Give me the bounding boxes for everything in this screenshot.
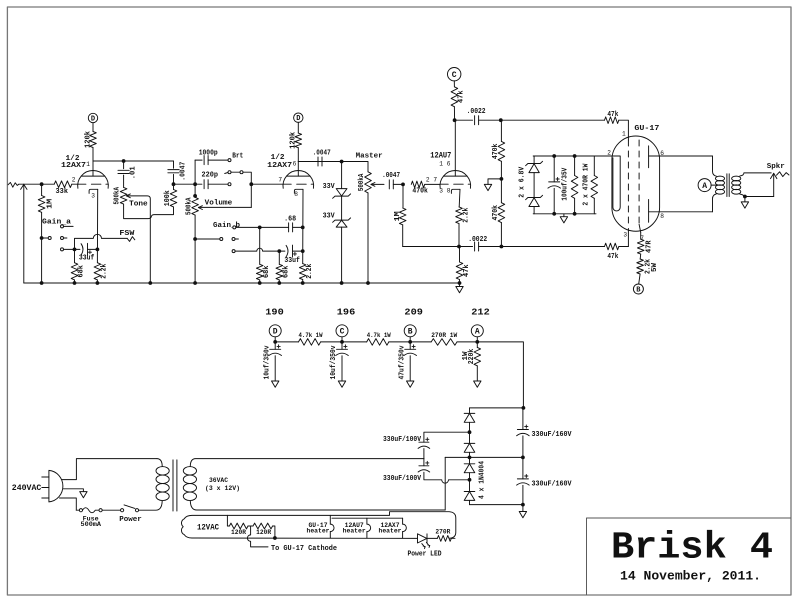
heater module divider 1 <box>329 515 331 524</box>
svg-text:.0022: .0022 <box>468 236 487 244</box>
resistor 2.2k 5W <box>639 254 642 259</box>
wire tone wiper loop <box>127 196 151 283</box>
speaker jack tip arrow <box>771 173 777 178</box>
resistor 120R humdinger a <box>226 515 228 526</box>
switch contact Brt lower <box>228 183 231 186</box>
node B below GU-17 <box>633 284 643 294</box>
capacitor 330uF/100V b <box>423 458 425 465</box>
wire grid V1b <box>251 183 283 185</box>
svg-text:240VAC: 240VAC <box>12 483 42 493</box>
potentiometer Volume 500kA <box>194 160 196 197</box>
resistor 220k 1W bleeder <box>476 342 478 348</box>
wire zener chain to ground <box>341 227 343 283</box>
capacitor .0047 coupling 1 <box>173 161 175 168</box>
zener 6.8V upper <box>533 156 535 164</box>
svg-text:47k: 47k <box>607 111 618 119</box>
switch contact Brt upper <box>228 159 231 162</box>
wire switch to primary <box>139 501 163 510</box>
svg-text:120k: 120k <box>85 131 93 148</box>
svg-text:Master: Master <box>356 153 383 161</box>
node C psu <box>336 325 348 337</box>
svg-text:330uF/100V: 330uF/100V <box>383 436 422 444</box>
resistor 120k plate load V1a <box>90 132 97 148</box>
svg-text:Power LED: Power LED <box>408 550 442 558</box>
wire plate 12AU7 up <box>454 120 456 176</box>
ground arrow screen network <box>563 214 565 217</box>
svg-text:220p: 220p <box>202 171 219 179</box>
resistor 100k <box>170 190 177 207</box>
svg-text:470k: 470k <box>492 205 500 221</box>
svg-text:3: 3 <box>91 192 95 199</box>
svg-text:12AX7: 12AX7 <box>61 162 86 170</box>
resistor 470R a <box>574 156 576 176</box>
svg-text:36VAC: 36VAC <box>209 477 228 485</box>
heater module top edge <box>332 517 403 519</box>
svg-text:Brisk 4: Brisk 4 <box>611 527 773 570</box>
svg-text:A: A <box>475 328 480 337</box>
zener 33V lower <box>341 196 343 220</box>
resistor 1M 12AU7 grid leak <box>402 184 404 208</box>
svg-text:5W: 5W <box>651 262 659 272</box>
plate bar upper GU-17 <box>648 146 650 168</box>
svg-text:100k: 100k <box>164 190 172 206</box>
wire neutral to fuse <box>60 498 77 510</box>
svg-text:330uF/100V: 330uF/100V <box>383 475 422 483</box>
capacitor .0047 coupling 2 <box>317 157 319 166</box>
svg-text:33V: 33V <box>323 212 336 220</box>
resistor 470k divider lower <box>498 203 505 223</box>
wire pin 8 to OT <box>649 211 713 213</box>
svg-text:heater: heater <box>343 528 366 535</box>
diode D3 1N4004 <box>469 457 471 463</box>
svg-text:1M: 1M <box>46 199 54 209</box>
resistor 270R LED <box>437 536 451 542</box>
svg-text:3 8: 3 8 <box>439 188 450 195</box>
resistor 120k plate load V1b <box>297 122 299 133</box>
svg-text:14 November, 2011.: 14 November, 2011. <box>620 568 761 583</box>
svg-text:270R: 270R <box>435 529 450 536</box>
svg-text:68k: 68k <box>263 266 271 279</box>
svg-text:Tone: Tone <box>129 200 148 208</box>
svg-text:500kA: 500kA <box>358 173 366 191</box>
svg-text:33uf: 33uf <box>284 257 300 265</box>
cathode channel GU-17 <box>613 156 620 211</box>
resistor 33k grid stopper <box>54 181 72 188</box>
plate bar lower GU-17 <box>648 200 650 223</box>
wire live to transformer <box>62 459 157 480</box>
svg-text:Brt: Brt <box>232 153 243 161</box>
svg-text:330uF/160V: 330uF/160V <box>532 481 573 489</box>
capacitor .01 tone <box>123 161 125 169</box>
svg-text:4.7k 1W: 4.7k 1W <box>367 332 391 339</box>
wire OT primary bottom <box>713 194 717 212</box>
svg-text:1 6: 1 6 <box>439 161 450 168</box>
zener 6.8V lower <box>533 173 535 198</box>
node 12AU7 grid <box>401 183 405 187</box>
wire volume bottom to ground <box>194 215 196 283</box>
capacitor 220p bright <box>203 180 205 189</box>
resistor 47k bottom GU-17 <box>605 243 619 250</box>
svg-text:330uF/160V: 330uF/160V <box>532 431 573 439</box>
power transformer primary winding <box>156 467 169 476</box>
power transformer secondary 36VAC winding <box>183 467 196 476</box>
wire master wiper <box>371 183 384 185</box>
svg-text:500kA: 500kA <box>185 197 193 215</box>
wire 36VAC bottom leg <box>190 501 445 510</box>
node D3 D4 junction <box>468 478 472 482</box>
FSW squiggle end <box>127 237 135 242</box>
resistor 47R screen <box>640 232 642 239</box>
capacitor .0022 lower <box>474 242 476 251</box>
svg-text:33uf: 33uf <box>79 255 95 263</box>
wire to 100V cap 1 <box>424 432 470 442</box>
heater module divider 2 <box>366 518 368 524</box>
wire 33k to grid <box>72 183 78 185</box>
wire fuse to switch <box>102 509 120 511</box>
svg-text:2 x 6.8V: 2 x 6.8V <box>518 166 526 198</box>
mains plug <box>49 470 63 502</box>
wire screen feed pin 2 <box>533 155 620 157</box>
capacitor .0022 upper <box>455 119 473 121</box>
ground arrow doubler <box>522 505 524 512</box>
svg-text:C: C <box>452 71 457 80</box>
capacitor 1000p bright <box>195 159 202 161</box>
svg-text:212: 212 <box>471 307 490 318</box>
wire screen network bottom <box>533 213 596 215</box>
resistor 1M grid leak <box>41 184 43 195</box>
svg-text:33k: 33k <box>56 188 69 196</box>
tube GU-17 envelope <box>612 136 660 231</box>
node B psu <box>404 325 416 337</box>
wire plate node stage 2 <box>298 161 341 163</box>
svg-text:120R: 120R <box>231 529 246 536</box>
ground arrow speaker <box>744 197 746 202</box>
svg-text:2: 2 <box>72 176 76 183</box>
capacitor .68 cathode V1b <box>288 223 290 232</box>
wire pin 3 down <box>627 229 629 247</box>
psu bus wires <box>274 337 276 342</box>
wire A to OT center tap <box>711 184 717 186</box>
resistor 120R humdinger b <box>253 523 273 529</box>
wire OT primary top <box>713 156 717 176</box>
capacitor 10uf/350v at D <box>274 342 276 349</box>
svg-text:4 x 1N4004: 4 x 1N4004 <box>479 461 487 499</box>
svg-text:8: 8 <box>660 213 664 220</box>
earth ground arrow <box>63 489 83 492</box>
node bridge mid <box>468 456 472 460</box>
resistor 470k divider upper <box>500 120 502 141</box>
svg-text:Power: Power <box>119 516 142 524</box>
node C supply <box>448 68 461 81</box>
resistor 68k cathode V1a <box>74 249 76 262</box>
resistor 2.2k cathode V1b <box>299 264 306 280</box>
capacitor 33uf cathode bypass V1b <box>292 245 294 257</box>
switch Brt pole and lever <box>225 173 228 174</box>
svg-text:3: 3 <box>623 232 627 239</box>
wire lower feedback line <box>403 246 473 248</box>
svg-text:47k: 47k <box>458 90 466 103</box>
svg-text:33V: 33V <box>323 183 336 191</box>
wire rectifier bottom <box>470 504 523 506</box>
wire cap b to D3 D4 junction with hop <box>424 472 470 483</box>
capacitor 330uF/160V b <box>522 457 524 479</box>
wire plate node stage 1 <box>93 160 174 162</box>
node .68 left <box>258 226 262 230</box>
svg-text:Gain_b: Gain_b <box>213 222 240 230</box>
svg-text:120k: 120k <box>290 132 298 149</box>
node feedback top <box>499 118 503 122</box>
svg-text:12AX7: 12AX7 <box>267 162 292 170</box>
wire input to grid node <box>19 183 54 185</box>
wire volume wiper to grid <box>199 206 252 208</box>
svg-text:270R 1W: 270R 1W <box>431 332 457 339</box>
diode D1 1N4004 <box>469 408 471 414</box>
wire OT secondary top to jack <box>740 173 771 176</box>
svg-text:7: 7 <box>278 177 282 184</box>
wire tone pot bottom <box>124 204 174 219</box>
zener 33V upper <box>341 162 343 189</box>
svg-text:47k: 47k <box>463 264 471 277</box>
heater module divider 3 <box>402 518 404 524</box>
diode D4 1N4004 <box>469 480 471 492</box>
grid g1 dashed GU-17 <box>627 140 629 228</box>
svg-text:1: 1 <box>622 130 626 137</box>
svg-text:C: C <box>340 328 345 337</box>
resistor 470k grid 12AU7 <box>411 181 424 188</box>
svg-text:4.7k 1W: 4.7k 1W <box>299 332 323 339</box>
node D supply stage 2 <box>294 113 303 122</box>
LED power indicator <box>418 534 427 543</box>
svg-text:190: 190 <box>265 307 284 318</box>
wire to GU-17 cathode <box>247 526 268 547</box>
svg-text:100uf/35V: 100uf/35V <box>562 167 570 201</box>
heater loop 12VAC winding racetrack <box>181 512 455 539</box>
capacitor 47uf/350v at B <box>409 342 411 349</box>
heater bottom wire segments <box>192 537 418 539</box>
input jack squiggle <box>8 182 19 187</box>
svg-text:1000p: 1000p <box>199 150 218 158</box>
svg-text:Spkr: Spkr <box>767 163 785 171</box>
node rectifier top <box>522 406 526 410</box>
resistor 68k cathode V1b a <box>256 264 263 280</box>
svg-text:.0022: .0022 <box>467 108 486 116</box>
wire bridge mid to caps mid <box>445 456 523 458</box>
node D1 D2 junction <box>468 430 472 434</box>
svg-text:68k: 68k <box>282 266 290 279</box>
svg-text:.68: .68 <box>284 216 296 224</box>
svg-text:.01: .01 <box>130 166 138 179</box>
svg-text:Gain_a: Gain_a <box>42 219 72 227</box>
resistor 2.2k cathode 12AU7 <box>458 189 461 207</box>
grid g2 dashed GU-17 <box>638 140 640 224</box>
svg-text:47uf/350v: 47uf/350v <box>398 345 406 380</box>
svg-text:2.2k: 2.2k <box>306 264 314 279</box>
capacitor 33uf cathode bypass V1a <box>87 243 89 255</box>
resistor 47k to ground <box>459 247 461 263</box>
wire to GU-17 grid top <box>501 119 605 121</box>
svg-text:2: 2 <box>607 149 611 156</box>
diode D2 1N4004 <box>469 432 471 443</box>
svg-text:2 7: 2 7 <box>426 176 437 183</box>
svg-text:2.2k: 2.2k <box>101 264 109 279</box>
svg-text:196: 196 <box>337 307 356 318</box>
resistor 4.7k 1W a <box>299 339 321 346</box>
wire volume bus <box>174 183 202 185</box>
svg-text:D: D <box>296 115 300 123</box>
svg-text:heater: heater <box>307 528 330 535</box>
switch Power <box>121 509 124 512</box>
wire pin 6 to OT <box>649 155 713 157</box>
svg-text:heater: heater <box>379 528 402 535</box>
svg-text:.0047: .0047 <box>382 172 400 180</box>
svg-text:1W: 1W <box>462 351 470 361</box>
title box <box>587 518 791 595</box>
svg-text:68k: 68k <box>78 265 86 278</box>
node master top <box>340 160 344 164</box>
resistor 470R b <box>593 156 595 176</box>
svg-text:47R: 47R <box>645 240 653 253</box>
capacitor 100uf/35V <box>553 156 555 182</box>
wire gain_b throw to cathode node <box>235 248 279 251</box>
resistor 4.7k 1W b <box>367 339 389 346</box>
node A psu <box>471 325 483 337</box>
capacitor .0047 master out <box>388 180 390 189</box>
node cathode V1a left <box>73 248 77 252</box>
ground rail <box>24 282 460 284</box>
svg-text:8: 8 <box>294 191 298 198</box>
resistor 68k cathode V1b b <box>276 264 283 280</box>
potentiometer Tone 500kA <box>120 187 127 204</box>
svg-text:470k: 470k <box>492 144 500 160</box>
resistor 47k to node C <box>451 87 458 107</box>
svg-text:D: D <box>91 116 95 124</box>
svg-text:12VAC: 12VAC <box>197 524 219 533</box>
potentiometer Master 500kA <box>342 162 368 172</box>
node plate to tone <box>122 159 126 163</box>
OT core <box>726 174 728 197</box>
svg-text:GU-17: GU-17 <box>634 125 659 133</box>
node A supply at OT <box>698 179 711 192</box>
wire 68k branch <box>259 227 261 264</box>
svg-text:10uf/350v: 10uf/350v <box>330 345 338 380</box>
svg-text:12AU7: 12AU7 <box>430 152 451 161</box>
svg-text:D: D <box>273 328 278 337</box>
wire 36VAC return leg <box>444 457 446 510</box>
node input junction <box>40 182 44 186</box>
svg-text:47k: 47k <box>607 253 618 261</box>
wire OT secondary bottom <box>740 194 774 196</box>
wire FSW branch <box>75 234 128 249</box>
node D psu <box>269 325 281 337</box>
svg-text:B: B <box>408 328 413 337</box>
tube V1a 1/2 12AX7 <box>78 171 109 189</box>
svg-text:209: 209 <box>404 307 423 318</box>
wire plate V1b up <box>297 162 299 177</box>
node divider mid <box>500 177 504 181</box>
OT primary winding <box>715 176 724 181</box>
svg-text:470k: 470k <box>412 188 428 196</box>
wire plate V1a up <box>92 161 94 176</box>
svg-text:1: 1 <box>86 161 90 168</box>
svg-text:500kA: 500kA <box>114 186 122 204</box>
wire 36VAC top leg <box>190 459 424 467</box>
capacitor 330uF/160V a <box>522 408 524 430</box>
svg-text:6: 6 <box>293 161 297 168</box>
capacitor 10uf/350v at C <box>341 342 343 349</box>
resistor 47k top GU-17 <box>605 117 619 124</box>
svg-text:To GU-17 Cathode: To GU-17 Cathode <box>271 545 337 553</box>
OT secondary winding <box>732 176 741 181</box>
svg-text:500mA: 500mA <box>81 521 102 528</box>
wire cathode V1b down <box>302 189 304 263</box>
power transformer core <box>172 460 174 511</box>
ground arrow under 47k <box>459 283 461 287</box>
svg-text:Volume: Volume <box>205 200 233 208</box>
tube 12AU7 <box>440 171 471 189</box>
wire rectifier top <box>470 407 524 409</box>
svg-text:1M: 1M <box>394 211 402 221</box>
svg-text:FSW: FSW <box>119 230 135 238</box>
svg-text:2 x 470R 1W: 2 x 470R 1W <box>582 163 590 206</box>
svg-text:2.2k: 2.2k <box>462 208 470 223</box>
resistor 270R 1W <box>431 339 457 346</box>
ground stub divider <box>488 179 501 185</box>
tube V1b 1/2 12AX7 <box>283 171 314 189</box>
chassis arrow at input <box>21 184 27 189</box>
svg-text:(3 x 12V): (3 x 12V) <box>205 485 240 493</box>
node D supply stage 1 <box>88 113 97 122</box>
svg-text:10uf/350v: 10uf/350v <box>263 345 271 380</box>
svg-text:.0047: .0047 <box>313 150 331 158</box>
svg-text:A: A <box>702 182 707 191</box>
fuse 500mA <box>79 509 82 512</box>
speaker squiggle to border <box>777 172 790 177</box>
junction dots psu bus <box>273 340 277 344</box>
capacitor 330uF/100V a <box>419 441 429 443</box>
wire cathode V1a down <box>96 189 98 249</box>
svg-text:120R: 120R <box>256 529 271 536</box>
resistor 2.2k cathode V1a <box>96 249 98 262</box>
svg-text:.0047: .0047 <box>180 162 188 181</box>
